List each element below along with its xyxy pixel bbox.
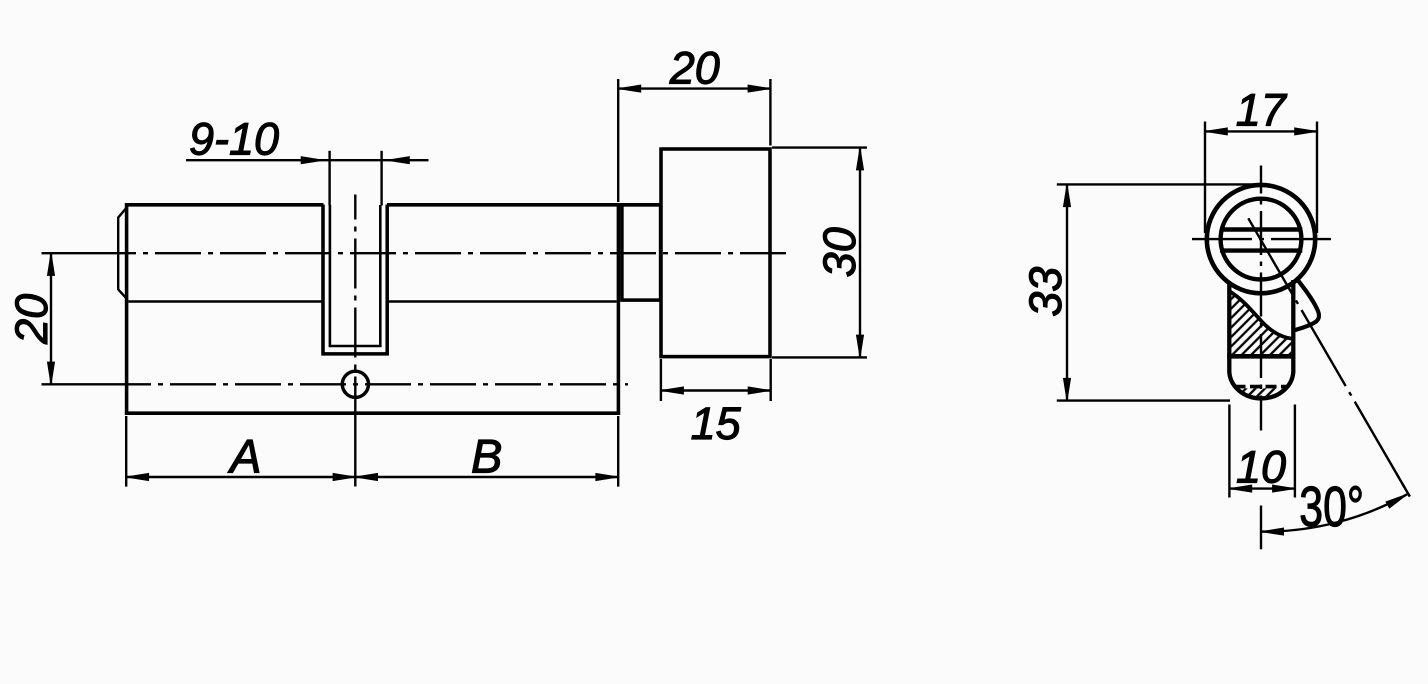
dim 9-10: dimension line with outside arrows bbox=[186, 159, 429, 161]
axis center line y=253 bbox=[128, 252, 792, 254]
lower hatched cap region bbox=[1235, 388, 1287, 400]
barrel bottom line (right of slot) bbox=[387, 300, 617, 302]
upper hatched section region bbox=[1230, 291, 1292, 354]
plug slot lower line bbox=[1220, 248, 1302, 252]
dim 30: extension lines bbox=[772, 146, 867, 148]
dim 17: dimension line bbox=[1205, 130, 1316, 132]
flange right wall bbox=[1291, 280, 1295, 373]
dim A/B: extension lines bbox=[125, 416, 127, 487]
cylinder body top edge (left of slot) bbox=[125, 203, 324, 207]
svg-text:A: A bbox=[227, 430, 261, 483]
svg-text:20: 20 bbox=[669, 43, 720, 94]
svg-text:B: B bbox=[471, 430, 502, 483]
svg-text:30: 30 bbox=[814, 227, 865, 277]
slot inner U bbox=[330, 205, 380, 346]
dim 9-10: extension lines bbox=[328, 151, 330, 206]
thumbturn knob bbox=[661, 149, 770, 357]
svg-text:10: 10 bbox=[1236, 442, 1286, 493]
slot center line extension below body bbox=[354, 414, 356, 487]
fixing screw circle bbox=[342, 371, 368, 397]
inner circle (plug) bbox=[1221, 199, 1302, 280]
break-out section curve bbox=[1230, 291, 1294, 339]
svg-text:30°: 30° bbox=[1299, 474, 1364, 538]
angle arc bbox=[1261, 494, 1407, 531]
slot vertical center line bbox=[354, 195, 356, 414]
flange bottom arc bbox=[1229, 372, 1293, 398]
vertical center line of face bbox=[1260, 166, 1262, 431]
slot outer U bbox=[323, 205, 387, 354]
svg-text:15: 15 bbox=[691, 398, 742, 449]
dim 20 top: dimension line bbox=[619, 87, 770, 89]
dim 10: dimension line bbox=[1230, 487, 1295, 489]
cylinder body bottom edge bbox=[125, 411, 620, 415]
hidden dashed band bbox=[1235, 385, 1288, 389]
dim 33: extension lines bbox=[1057, 183, 1260, 185]
outer circle of cylinder face bbox=[1207, 185, 1315, 293]
dim 15: extension lines bbox=[660, 359, 662, 401]
dim 20 left: extension lines bbox=[42, 252, 128, 254]
30 degree diagonal center line bbox=[1248, 218, 1410, 496]
cylinder body left edge bbox=[125, 203, 129, 415]
cylinder body right edge bbox=[617, 203, 621, 415]
svg-text:17: 17 bbox=[1236, 85, 1288, 136]
short vertical angle reference line bbox=[1260, 506, 1262, 550]
dim 15: dimension line bbox=[661, 389, 770, 391]
30 degree diagonal end segment bbox=[1396, 473, 1410, 497]
neck (cam section) bbox=[622, 205, 661, 300]
barrel bottom line (left of slot) bbox=[128, 300, 323, 302]
plug slot upper line bbox=[1220, 227, 1302, 231]
dim 20 top: extension lines bbox=[617, 79, 619, 202]
dim 33: dimension line bbox=[1066, 185, 1068, 401]
horizontal center line of face bbox=[1192, 238, 1332, 240]
cylinder body top edge (right of slot, over neck) bbox=[387, 203, 661, 207]
screw axis center line y=384 bbox=[128, 383, 628, 385]
chamfered plug face at left end bbox=[118, 208, 126, 299]
dim 10: extension lines bbox=[1228, 405, 1230, 498]
svg-text:20: 20 bbox=[6, 294, 57, 345]
svg-text:33: 33 bbox=[1020, 267, 1071, 317]
dim A/B: dimension line bbox=[126, 476, 618, 478]
dim 20 left: dimension line bbox=[50, 253, 52, 384]
dim 17: extension lines bbox=[1204, 122, 1206, 234]
flange left wall bbox=[1227, 283, 1231, 373]
svg-text:9-10: 9-10 bbox=[189, 113, 279, 164]
cam lobe flap bbox=[1294, 279, 1319, 331]
section band (thick) bbox=[1227, 354, 1294, 359]
dim 30: dimension line bbox=[859, 148, 861, 357]
